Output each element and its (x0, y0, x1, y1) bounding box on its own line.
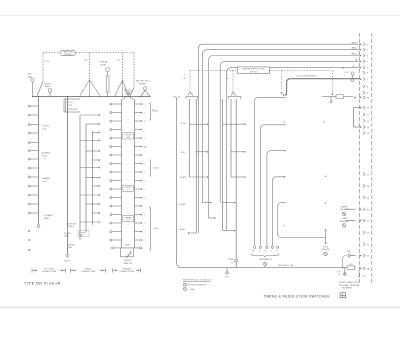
connector terminal C3 pin 19 (363, 196, 365, 199)
svg-text:HF REJ: HF REJ (68, 245, 75, 247)
connector J11 dashed strip line 2 (371, 33, 373, 283)
svg-text:SHOWN: SHOWN (64, 54, 72, 56)
dimension span HOLD OFF CONNECTIONS (32, 269, 38, 271)
wafer 2 contact rung 1 (223, 123, 245, 125)
svg-text:PILOT: PILOT (67, 102, 74, 104)
switch contact stub L9 with terminal (31, 176, 39, 178)
wire - comb vertical 2 (79, 115, 81, 240)
wafer 2 rail b (230, 99, 232, 177)
wire step - line 3 lower stub (209, 217, 215, 219)
dimension span TIMING CONNECTIONS (71, 269, 77, 271)
svg-text:CAP (T): CAP (T) (68, 225, 76, 228)
terminal circles of calibrator leads (254, 246, 256, 248)
junction dot on line 5 (342, 67, 344, 69)
connector terminal A6 pin 6 (363, 71, 365, 74)
wire step - line 2 lower stub (203, 202, 211, 204)
svg-text:LT MAIN: LT MAIN (44, 214, 53, 217)
svg-text:COUNT: COUNT (124, 187, 132, 189)
ground symbol below comb (66, 254, 70, 256)
svg-text:TRIG: TRIG (64, 236, 69, 238)
dashed wire drop to wafer 1 (189, 70, 191, 92)
svg-text:PLUG AND TERMINAL: PLUG AND TERMINAL (339, 284, 361, 287)
brace for interconnecting note (359, 271, 360, 278)
svg-text:LF REJ: LF REJ (79, 232, 86, 234)
svg-text:(-): (-) (152, 110, 155, 112)
svg-text:1: 1 (184, 75, 185, 77)
wafer 1 contact rung 1 (189, 123, 207, 125)
wire - calibrator lead 3 (267, 151, 285, 246)
connector terminal C8 pin 24 (360, 255, 362, 257)
comb contact stub M9 (93, 185, 99, 187)
potentiometer calibrator adjust (263, 262, 267, 266)
wiper diagonals onto timing ladder (115, 80, 123, 96)
switch wiper arrow SWEEP TIME SW (126, 253, 131, 258)
switch contact stub L12 with terminal (31, 203, 39, 205)
switch contact stub L1 with terminal (31, 105, 39, 107)
label VARIABLE mid ladder (123, 216, 134, 222)
wiper common line at ladder bottom (114, 247, 140, 249)
comb contact stub M3 (93, 132, 99, 134)
svg-text:ARM: ARM (45, 85, 50, 88)
svg-text:AL ARM: AL ARM (42, 152, 50, 155)
svg-text:SWING: SWING (139, 83, 146, 85)
svg-text:.5 µF: .5 µF (42, 181, 48, 183)
wafer 2 contact rung 2 (231, 151, 244, 153)
timing ladder contact row T16 (112, 231, 121, 233)
svg-text:CAP: CAP (68, 246, 73, 249)
wafer 2 contact rung 3 (231, 176, 244, 178)
wire - resolution line 3 to connector (209, 56, 360, 219)
wafer 1 contact rung 3 (189, 176, 207, 178)
svg-text:NUMBERS: NUMBERS (342, 288, 353, 290)
comb contact stub M7 (80, 167, 99, 169)
ground symbol under auto cap line (226, 268, 228, 272)
comb contact stub M5 (86, 150, 99, 152)
ground branch with line symbol (344, 268, 346, 273)
svg-text:1 µF: 1 µF (42, 128, 47, 130)
svg-text:+ LINE: + LINE (188, 289, 195, 291)
svg-text:TRIG ATL: TRIG ATL (99, 61, 109, 64)
svg-text:1 mSEC: 1 mSEC (178, 204, 187, 206)
comb contact stub M6 (93, 159, 99, 161)
connector terminal C7 pin 23 (363, 243, 365, 246)
svg-text:TIMING & RESOLUTION SWITCHES: TIMING & RESOLUTION SWITCHES (264, 294, 331, 298)
switch wafer timing ladder right rail (134, 100, 136, 248)
svg-text:INTERCONNECTING: INTERCONNECTING (339, 282, 359, 284)
svg-text:(-)150: (-)150 (180, 123, 187, 125)
arrow terminals onto +100 wire (283, 94, 285, 96)
comb contact stub M10 (80, 194, 99, 196)
wire - resolution line 1 to connector (198, 44, 359, 233)
timing ladder contact row T9 (112, 171, 121, 173)
svg-text:× CAP: × CAP (345, 250, 351, 253)
svg-text:CALIBRATOR: CALIBRATOR (259, 258, 272, 261)
connector terminal B5 pin 14 (363, 132, 365, 135)
wire - comb main vertical (67, 97, 69, 256)
spare contact terminals below left ladder (29, 230, 30, 231)
page top edge line (0, 15, 400, 17)
brace under calibrator leads (251, 254, 279, 258)
timing ladder contact row T13 (112, 205, 121, 207)
wiper diagonal onto left ladder (37, 82, 43, 96)
svg-text:MASTER RESOLUTION: MASTER RESOLUTION (243, 68, 265, 71)
comb contact stub M11 (86, 203, 99, 205)
svg-text:FROM SW: FROM SW (67, 109, 77, 111)
wafer 1 rail b (195, 99, 197, 233)
jumper loop between pins 10 and 13 (354, 107, 360, 109)
svg-text:SWEEP: SWEEP (124, 260, 132, 262)
svg-text:FRONT RESISTOR: FRONT RESISTOR (188, 285, 207, 287)
svg-text:SW 2: SW 2 (125, 94, 131, 96)
brace group -150 (150, 160, 152, 176)
svg-text:(2): (2) (231, 262, 234, 264)
comb contact stub M8 (86, 177, 99, 179)
wire - resolution line 5 to connector (227, 68, 360, 231)
wire - calibrator lead 1 (255, 97, 286, 246)
svg-text:AT +10: AT +10 (174, 96, 181, 99)
svg-text:+350: +350 (153, 228, 159, 230)
svg-text:TIME SW: TIME SW (123, 263, 132, 265)
switch contact stub L5 with terminal (31, 142, 39, 144)
connector terminal B2 pin 11 (363, 113, 365, 116)
switch contact stub L11 with terminal (31, 194, 39, 196)
timing ladder contact row T8 (112, 163, 121, 165)
switch contact stub L8 with terminal (31, 167, 39, 169)
svg-text:A1: A1 (355, 59, 357, 62)
switch frame below ladder (121, 248, 134, 257)
dashed wire - master resolution switch line (190, 69, 237, 71)
connector terminal A7 pin 7 (363, 78, 365, 81)
connector terminal A3 pin 3 (363, 54, 365, 57)
svg-text:MAG 1: MAG 1 (352, 53, 358, 56)
svg-text:SW 500: SW 500 (250, 72, 258, 74)
svg-text:LATCH: LATCH (42, 125, 49, 128)
wafer 1 rail a (188, 99, 190, 177)
svg-text:COUPL: COUPL (125, 135, 133, 137)
connector terminal A1 pin 5 (363, 43, 365, 46)
switch contact stub L10 with terminal (31, 185, 39, 187)
wire - resolution line 2 to connector (203, 50, 360, 203)
timing ladder contact row T5 (112, 137, 121, 139)
svg-text:MAG 5: MAG 5 (352, 41, 358, 44)
label box LF REJECT CAP (78, 231, 89, 237)
timing ladder contact row T11 (112, 188, 121, 190)
ground/switch symbol TO SW with stem (31, 78, 34, 81)
svg-text:SW GD: SW GD (64, 261, 71, 263)
label COUPL SW mid ladder (123, 133, 134, 139)
page bottom edge line (0, 306, 400, 308)
svg-text:1: 1 (227, 75, 228, 77)
svg-text:TIMING: TIMING (85, 268, 92, 270)
legend symbol 1 FRONT RESISTOR (183, 283, 186, 286)
svg-text:SW: SW (126, 137, 129, 139)
svg-text:TIMING: TIMING (124, 91, 132, 93)
junction dots in open area (283, 121, 284, 122)
svg-text:ARM: ARM (44, 217, 49, 220)
svg-text:1 µSEC: 1 µSEC (178, 229, 186, 231)
resistor R - trig level element (106, 76, 109, 92)
svg-text:CLOCK (RUNS) RATE: CLOCK (RUNS) RATE (296, 74, 317, 77)
svg-text:× GAIN: × GAIN (341, 217, 348, 220)
timing ladder contact row T14 (112, 214, 121, 216)
connector terminal B1 pin 10 (363, 106, 365, 109)
revision block hatched square (340, 293, 346, 298)
connector terminal A2 pin 4 (363, 48, 365, 51)
capacitor on vertical (235, 259, 238, 261)
connector terminal A10 pin 16 (360, 96, 362, 98)
switch wafer SW1 left ladder bus (38, 97, 40, 225)
svg-text:CAP: CAP (79, 234, 84, 237)
svg-text:(-)150: (-)150 (153, 168, 160, 170)
legend symbol 2 LINE (183, 287, 186, 290)
wafer 1 bottom stub (189, 232, 196, 234)
timing ladder contact row T15 (112, 222, 121, 224)
connector terminal B4 pin 13 (363, 125, 365, 128)
switch contact stub L7 with terminal (31, 158, 39, 160)
wafer 2 lower stub 2 (223, 230, 234, 232)
comb contact stub M4 (80, 140, 99, 142)
timing ladder contact row T6 (112, 146, 121, 148)
wire - comb vertical 4 (92, 131, 94, 225)
brace group +350 upper (150, 103, 152, 120)
switch contact stub L13 with terminal (31, 212, 39, 214)
connector terminal C1 pin 17 (363, 173, 365, 176)
wafer 2 top bracket (229, 95, 241, 97)
switch symbol near pin 6 (351, 72, 354, 75)
svg-text:REC /AUTO CAP: REC /AUTO CAP (278, 264, 294, 267)
wire - hook to trigger cal (278, 222, 326, 238)
bracket group lower sweep ranges (150, 207, 152, 250)
dashed wire drop to left wafer (42, 53, 44, 82)
switch contact stub L4 with terminal (31, 132, 39, 134)
svg-text:CONNECTIONS: CONNECTIONS (41, 271, 56, 273)
timing ladder contact row T1 (112, 103, 121, 105)
wire - clock rate line (287, 79, 359, 95)
dashed drop from resolution line onto +100 wire (281, 70, 283, 89)
wire - comb vertical 3 (85, 124, 87, 232)
timing ladder contact row T7 (112, 154, 121, 156)
wire - right rail of left block, corner into auto cap line (177, 97, 343, 267)
wire - resolution line 4 to connector (220, 61, 359, 202)
dashed wire drop to wafer 2 (232, 70, 234, 92)
wire - calibrator lead 5 (278, 203, 286, 222)
svg-text:THE CAL: THE CAL (321, 248, 330, 251)
connector terminal C5 pin 21 (360, 220, 362, 222)
wire - calibrator lead 2 (260, 125, 284, 246)
label box TIMING SW SHOWN (60, 50, 76, 55)
svg-text:+350: +350 (180, 152, 186, 154)
connector terminal A4 pin 2 (363, 60, 365, 63)
selector box PILOT VOLT / FROM SW (63, 99, 65, 112)
svg-text:47Ω: 47Ω (349, 264, 353, 266)
wiper diagonals onto middle comb (80, 80, 90, 96)
capacitor branch to pin 24 (343, 256, 347, 268)
svg-text:LEVEL: LEVEL (100, 64, 108, 66)
connector terminal A9 pin 9 (363, 91, 365, 94)
resistor R16 on wire (336, 95, 344, 99)
svg-text:CONNECTIONS: CONNECTIONS (81, 271, 96, 273)
svg-text:LATCH: LATCH (44, 83, 51, 86)
switch contact stub L6 with terminal (31, 150, 39, 152)
svg-text:SEC ATL PULL: SEC ATL PULL (136, 80, 151, 83)
svg-text:PLATE: PLATE (180, 176, 187, 179)
timing ladder contact row T2 (112, 112, 121, 114)
timing ladder contact row T3 (112, 120, 121, 122)
svg-text:VARIAB: VARIAB (124, 216, 132, 219)
svg-text:HOLD OFF: HOLD OFF (44, 268, 55, 270)
connector terminal C4 pin 20 (360, 208, 362, 210)
dashed wire drop 3 (122, 53, 124, 80)
comb contact stub M1 (80, 114, 99, 116)
terminal circle at bottom of left ladder (37, 225, 40, 228)
switch contact stub L2 with terminal (31, 114, 39, 116)
label COUNT D mid ladder (123, 185, 134, 191)
svg-text:TRIGGER: TRIGGER (122, 268, 132, 270)
wire - vertical into auto cap line (235, 99, 237, 268)
dimension span TRIGGER CONNECTIONS (113, 269, 118, 271)
switch wafer timing ladder left rail (120, 100, 122, 248)
svg-text:REFERENCE SYMBOLS: REFERENCE SYMBOLS (183, 280, 212, 282)
connector terminal C6 pin 22 (363, 231, 365, 234)
switch contact stub L3 with terminal (31, 124, 39, 126)
dashed drop from resolution line to R block (332, 70, 334, 93)
wire - calibrator lead 4 (273, 177, 285, 246)
trigger cal element with arrows (325, 231, 327, 243)
comb contact stub M2 (86, 123, 99, 125)
junction dots on +100 rail (32, 96, 33, 97)
svg-text:CONNECTIONS: CONNECTIONS (119, 271, 134, 273)
timing ladder contact row T10 (112, 180, 121, 182)
comb contact stub M13 (80, 221, 99, 223)
svg-text:TYPE 550 PLUG-IN: TYPE 550 PLUG-IN (24, 281, 61, 285)
connector terminal A5 pin 1 (363, 66, 365, 69)
junction at end of auto cap line (342, 267, 343, 268)
svg-text:VOLT: VOLT (67, 105, 73, 107)
svg-text:CAL ADJ: CAL ADJ (340, 208, 348, 211)
wire - segment to terminal 16 with resistor (322, 96, 336, 98)
svg-text:TD B: TD B (42, 155, 48, 157)
wafer 2 rail a (222, 99, 224, 231)
svg-text:+L: +L (270, 251, 272, 253)
resistor branch to pin 2A (343, 267, 347, 269)
svg-text:SWEEP: SWEEP (340, 207, 348, 209)
dashed wire - timing switch shown line (43, 52, 59, 54)
svg-text:LA ARM: LA ARM (42, 177, 50, 180)
svg-text:2: 2 (344, 75, 345, 77)
wafer 1 contact rung 2 (196, 151, 207, 153)
dashed wire corner at right of funnel (133, 53, 135, 88)
timing ladder contact row T4 (112, 129, 121, 131)
timing ladder contact row T17 (112, 239, 121, 241)
connector terminal B3 pin 12 (363, 119, 365, 122)
label box MASTER RESOLUTION SW 500 (238, 67, 270, 74)
ground stub under wire (330, 97, 332, 101)
connector terminal A8 pin 8 (363, 85, 365, 88)
wire - left block top rail +100V bus (33, 96, 151, 98)
timing ladder contact row T12 (112, 197, 121, 199)
dashed wire drop 2 (89, 53, 91, 80)
wafer 1 top bracket (186, 95, 198, 97)
wafer 2 lower stub 1 (223, 202, 234, 204)
connector terminal C2 pin 18 (363, 184, 365, 187)
connector J11 dashed strip line 1 (359, 33, 361, 283)
svg-text:1 µSEC: 1 µSEC (124, 245, 131, 247)
comb contact stub M12 (93, 212, 99, 214)
connector terminal C9 pin 2A (360, 267, 362, 269)
svg-text:75: 75 (339, 274, 341, 276)
svg-text:MAG 2: MAG 2 (352, 47, 358, 50)
